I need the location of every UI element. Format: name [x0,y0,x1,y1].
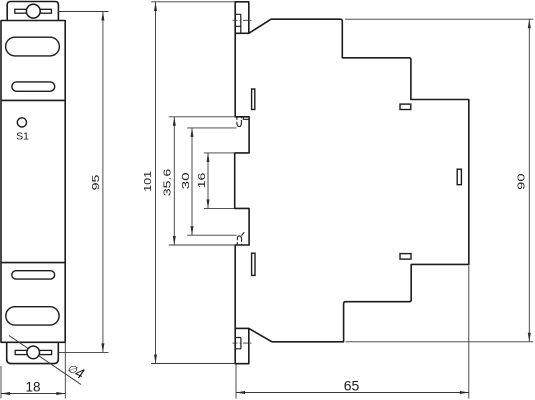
dim 101 line [155,2,157,364]
svg-text:101: 101 [143,171,154,192]
front panel divider line upper [1,99,65,101]
front view top mounting tab [7,2,58,21]
dim 65 extension right [468,266,470,399]
arrow 30 top [191,128,194,137]
front panel divider line lower [1,262,65,264]
svg-text:35.6: 35.6 [161,168,172,196]
dim 16 line [207,153,209,209]
slot on right wall [457,169,461,185]
vent slot bottom small [12,271,55,279]
dim 101 extension top [151,1,235,3]
svg-text:16: 16 [196,172,207,188]
arrow 101 bottom [154,355,157,364]
arrow 65 right [460,391,469,394]
dim 35.6 line [173,117,175,245]
dim 30 extension bottom [187,234,236,236]
arrow 30 bottom [191,226,194,235]
dim 16 extension top [204,152,235,154]
DIN clip hook bottom (hidden line) [237,239,241,244]
svg-text:30: 30 [179,172,191,189]
slot on lower step [400,254,411,260]
vent slot bottom large [6,307,59,325]
bottom mounting slot [15,350,51,354]
dim 30 line [191,128,193,235]
DIN clip hook top (hidden line) [237,117,242,122]
top tab centerline [233,19,252,21]
svg-text:18: 18 [25,380,40,395]
bottom tab top step [235,327,249,329]
dim 65 line [236,392,469,394]
dim 101 extension bottom [151,363,235,365]
arrow 101 top [154,2,157,11]
arrow 16 top [207,153,210,162]
svg-text:S1: S1 [16,131,29,143]
dim 18 line [1,393,65,395]
dim 35.6 extension top [169,116,236,118]
arrow 16 bottom [207,199,210,208]
svg-text:90: 90 [516,173,527,189]
dim 18 extension right [64,342,66,398]
terminal slot lower left wall [252,253,255,275]
button S1 circle [17,118,26,127]
slot on upper step [400,104,411,109]
front view body outline [1,21,65,343]
side view outer profile [235,2,469,364]
arrow 95 top [101,12,104,21]
arrow 18 right [56,392,65,395]
vent slot top large [6,37,60,56]
dim 16 extension bottom [204,207,235,209]
leader line for hole diameter [9,336,81,385]
dim 30 extension top [187,127,236,129]
dim 95 extension bottom [59,351,109,353]
top tab bottom step [235,32,249,34]
dim 95 extension top [58,11,108,13]
dim 90 line [528,19,530,342]
top screw hole circle [26,4,40,18]
vent slot top small [12,82,55,91]
arrow 90 top [528,19,531,28]
DIN clip spring tick bottom [242,232,245,236]
front view bottom mounting tab [7,342,59,363]
dim 95 line [102,12,104,353]
arrow 35.6 bottom [173,236,176,245]
dim 35.6 extension bottom [169,244,236,246]
arrow 65 left [236,391,245,394]
top tab notch [235,14,241,33]
bottom tab centerline [233,342,252,344]
terminal slot upper left wall [252,89,255,110]
DIN clip ledge top [243,117,249,119]
dim 90 extension top [345,18,533,20]
bottom screw hole circle [27,346,40,359]
svg-text:95: 95 [90,174,101,190]
dim 90 extension bottom [346,341,534,343]
arrow 18 left [1,392,10,395]
dim 18 extension left [0,366,2,399]
arrow 95 bottom [101,343,104,352]
svg-text:65: 65 [344,377,360,393]
bottom tab notch [235,338,241,349]
top mounting slot [15,9,52,13]
dim 65 extension left [235,365,237,399]
arrow 35.6 top [173,117,176,126]
arrow 90 bottom [528,333,531,342]
